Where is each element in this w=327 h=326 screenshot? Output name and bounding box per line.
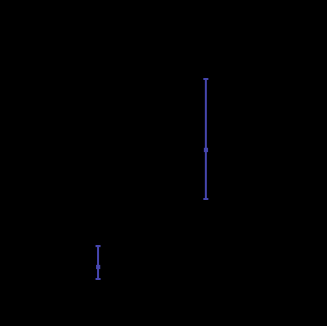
wire segment 3 (upper part of short vertical wire) (97, 245, 99, 267)
terminal cap (top end of short wire) (96, 245, 101, 247)
junction node (middle of short wire) (96, 265, 100, 269)
wire segment 2 (lower part of long vertical wire) (205, 150, 207, 200)
terminal cap (top end of long wire) (203, 78, 208, 80)
junction node (middle of long wire) (204, 148, 208, 152)
wire segment 4 (lower part of short vertical wire) (97, 267, 99, 280)
wire segment 1 (upper part of long vertical wire) (205, 78, 207, 150)
terminal cap (bottom end of long wire) (203, 198, 208, 200)
terminal cap (bottom end of short wire) (96, 278, 101, 280)
